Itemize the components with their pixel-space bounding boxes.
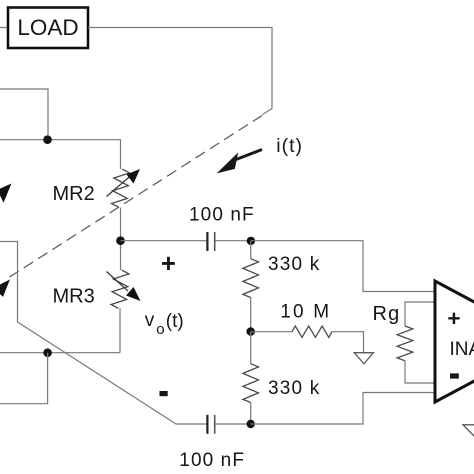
current annotation arrow i(t) bbox=[220, 150, 262, 172]
wire C1 to + node bbox=[216, 240, 251, 242]
label 330 k (bottom) bbox=[268, 378, 320, 399]
wire left bridge column stub bbox=[0, 242, 18, 323]
MR2 variable arrow bbox=[107, 169, 141, 197]
resistor R1 330 k (top) bbox=[243, 241, 259, 332]
svg-text:v: v bbox=[145, 310, 155, 331]
label INA bbox=[450, 339, 474, 360]
label MR2 bbox=[53, 183, 95, 205]
wire C2 to - node bbox=[216, 423, 251, 425]
wire diagonal from left column to bottom capacitor bbox=[18, 322, 207, 424]
svg-text:100 nF: 100 nF bbox=[179, 450, 245, 471]
svg-text:100 nF: 100 nF bbox=[189, 205, 255, 226]
svg-text:+: + bbox=[447, 306, 460, 331]
label - (amp input) bbox=[450, 373, 459, 378]
svg-text:MR3: MR3 bbox=[53, 286, 95, 308]
junction - node bbox=[247, 420, 255, 428]
op-amp U1 instrumentation amplifier bbox=[435, 281, 474, 402]
wire + node to amp input bbox=[251, 241, 434, 292]
svg-text:INA: INA bbox=[450, 339, 474, 360]
svg-text:(t): (t) bbox=[166, 311, 184, 332]
label LOAD bbox=[17, 15, 78, 40]
wire MR3 bottom to bottom rail bbox=[119, 308, 121, 353]
label 100 nF (bottom) bbox=[179, 450, 245, 471]
svg-text:330 k: 330 k bbox=[268, 378, 320, 399]
svg-text:o: o bbox=[156, 321, 164, 338]
label vo(t) bbox=[145, 310, 184, 338]
arrowhead of cropped magnetoresistor MR1 at left edge bbox=[0, 185, 11, 202]
ground symbol (amp reference, partial at edge) bbox=[463, 425, 474, 438]
junction bridge bottom bbox=[43, 348, 52, 357]
label 100 nF (top) bbox=[189, 205, 255, 226]
label 10 M bbox=[280, 302, 331, 323]
wire bottom-left stub bbox=[0, 353, 48, 404]
load box LOAD bbox=[8, 8, 88, 49]
label MR3 bbox=[53, 286, 95, 308]
arrowhead at lower-left end of dashed line (partial, MR1/MR4 coupling) bbox=[0, 281, 9, 297]
svg-text:i(t): i(t) bbox=[276, 135, 303, 157]
wire bridge output to capacitor C1 bbox=[121, 240, 207, 242]
svg-text:Rg: Rg bbox=[373, 303, 401, 325]
wire from left edge to LOAD bbox=[0, 27, 8, 29]
junction + node bbox=[247, 237, 255, 245]
label Rg bbox=[373, 303, 401, 325]
resistor Rg bbox=[397, 302, 434, 383]
capacitor C2 100 nF (bottom) bbox=[207, 415, 214, 434]
label i(t) bbox=[276, 135, 303, 157]
wire bridge top rail bbox=[0, 140, 121, 169]
wire MR2 bottom to mid node bbox=[120, 208, 122, 271]
svg-text:330 k: 330 k bbox=[268, 254, 320, 275]
svg-text:+: + bbox=[161, 250, 176, 278]
label + (amp input) bbox=[447, 306, 460, 331]
wire from LOAD right side to top right corner bbox=[88, 28, 272, 109]
junction bridge top bbox=[43, 135, 52, 144]
label - (bridge output polarity) bbox=[160, 391, 168, 396]
label + (bridge output polarity) bbox=[161, 250, 176, 278]
magnetoresistor MR2 (zigzag) bbox=[111, 168, 129, 208]
wire - node to amp input bbox=[251, 393, 434, 425]
dashed coupling line (magnetic field path) bbox=[8, 115, 262, 278]
wire bridge bottom rail bbox=[0, 352, 120, 354]
MR3 variable arrow bbox=[107, 272, 141, 302]
wire mid node to 10 M bbox=[251, 331, 292, 333]
wire top-left stub (bridge top feed) bbox=[0, 89, 48, 140]
label 330 k (top) bbox=[268, 254, 320, 275]
svg-text:MR2: MR2 bbox=[53, 183, 95, 205]
resistor R3 10 M bbox=[292, 326, 332, 337]
junction mid node bbox=[246, 327, 255, 336]
svg-text:10 M: 10 M bbox=[280, 302, 331, 323]
wire 10 M to ground bbox=[332, 332, 364, 353]
wire solid stub before dashed line bbox=[263, 109, 273, 115]
capacitor C1 100 nF (top) bbox=[207, 232, 214, 251]
svg-text:LOAD: LOAD bbox=[17, 15, 78, 40]
resistor R2 330 k (bottom) bbox=[243, 332, 259, 424]
junction bridge right output node bbox=[116, 236, 125, 245]
magnetoresistor MR3 (zigzag) bbox=[111, 269, 129, 309]
ground symbol (reference) bbox=[354, 353, 373, 364]
